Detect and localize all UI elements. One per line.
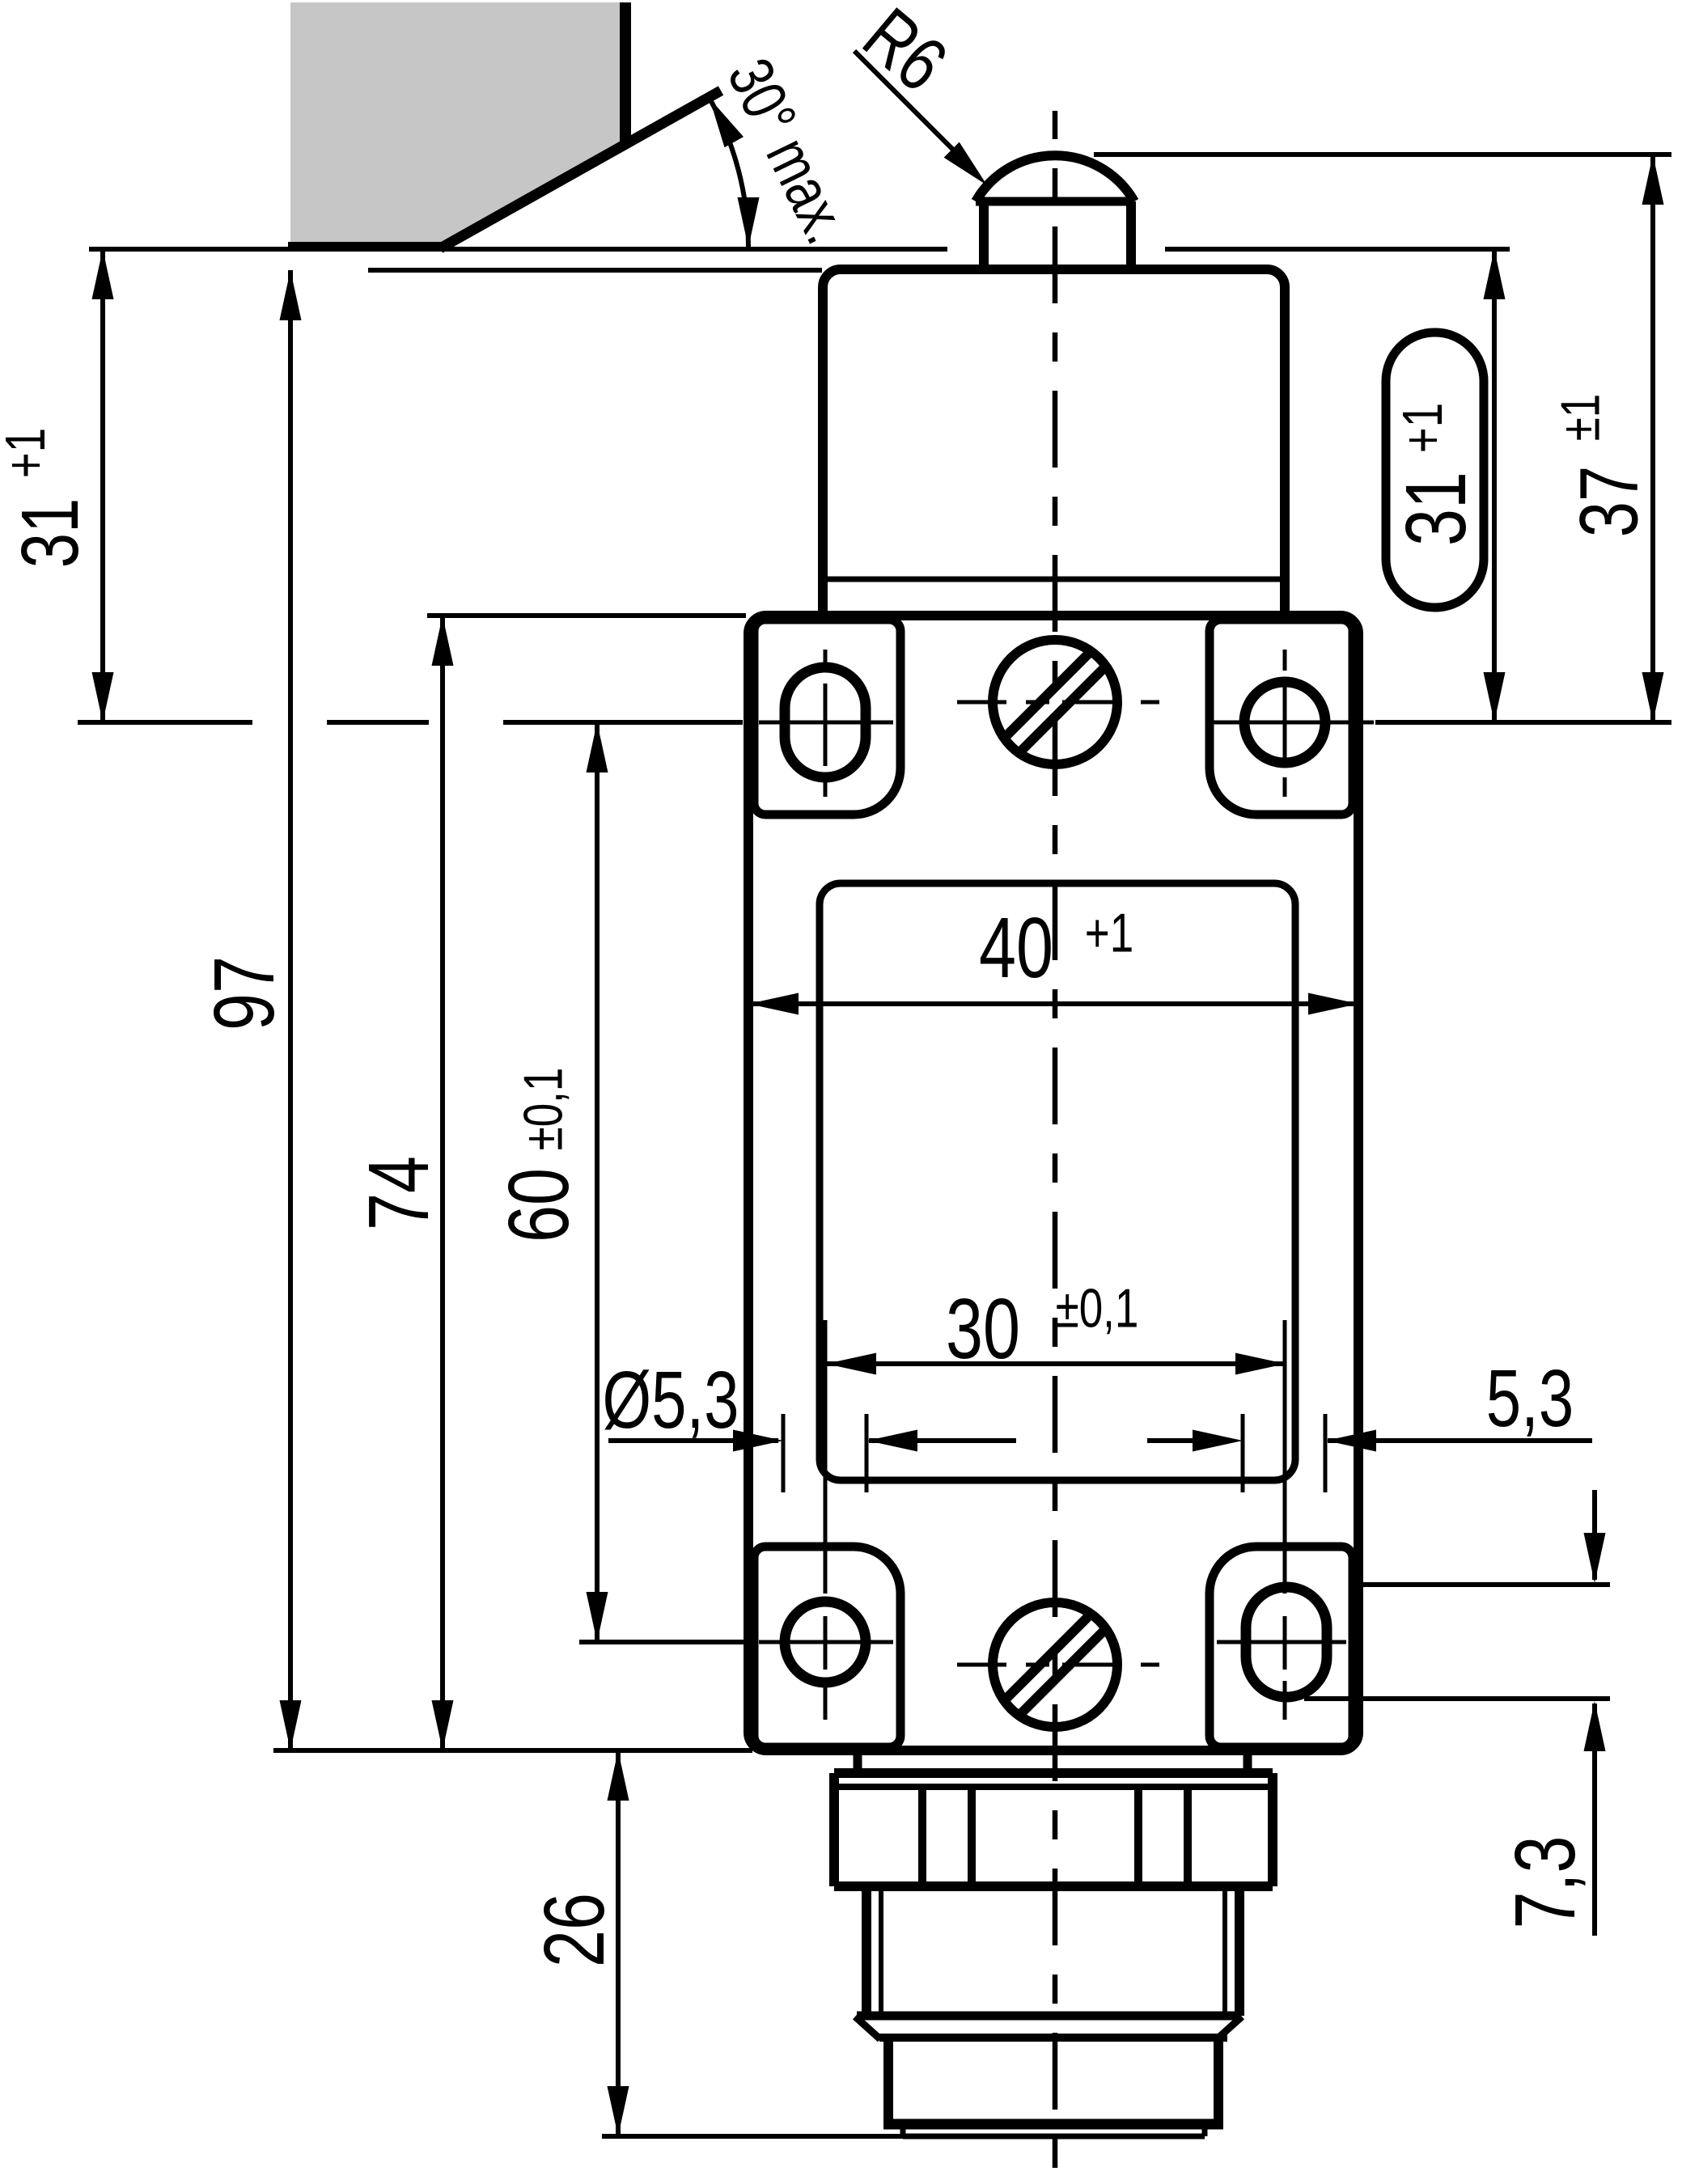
svg-text:40: 40 [979, 900, 1053, 996]
thread chamfer right [1217, 2017, 1242, 2039]
dim 31+1 left arrows [92, 249, 114, 299]
top cover screw [993, 640, 1117, 764]
body top extension line [427, 613, 746, 618]
dim dia5,3 ext lines [782, 1414, 786, 1492]
svg-text:±0,1: ±0,1 [1056, 1277, 1139, 1339]
dim 30 arrows [826, 1353, 876, 1375]
dim 74 line [440, 616, 445, 1750]
hex nut outline [834, 1768, 1273, 1778]
svg-text:37: 37 [1563, 466, 1655, 538]
hex nut chamfer line [834, 1784, 1273, 1790]
thread outer right [1235, 1886, 1244, 2016]
top-right pocket [1210, 620, 1353, 815]
plunger top reference line [1094, 152, 1671, 157]
dim 40 line [748, 1001, 1358, 1006]
svg-text:30° max.: 30° max. [714, 48, 863, 253]
neck left [854, 1750, 862, 1773]
dim 97 text [197, 956, 292, 1031]
plunger cylinder left side [979, 201, 989, 273]
svg-text:+1: +1 [0, 428, 57, 478]
top-right hole crosshair [1205, 721, 1374, 725]
body outline [748, 616, 1358, 1750]
hex nut facet lines [918, 1787, 926, 1886]
dim 5,3 line [1147, 1438, 1195, 1443]
mounting surface line right [1165, 247, 1510, 252]
dim 7,3 ext top [1359, 1582, 1610, 1587]
dim 40 text [979, 900, 1053, 996]
dim 40 arrows [748, 993, 799, 1015]
dim 31+1 right line [1492, 249, 1497, 722]
hole center extension line x1020 [824, 1320, 828, 1594]
dim 37 text [1563, 466, 1655, 538]
svg-text:31: 31 [6, 498, 96, 569]
plug bottom extension line [602, 2134, 903, 2139]
top-left hole crosshair [759, 721, 893, 725]
hole center extension line x1588 [1283, 1320, 1287, 1594]
angle 30deg text [714, 48, 863, 253]
mounting surface line left [89, 247, 947, 252]
hole center extension line left c [503, 720, 743, 725]
R6 leader line [854, 51, 955, 151]
angle 30deg arc arrows [710, 99, 744, 148]
dim 97 line [288, 270, 293, 1750]
hole center extension line right [1375, 720, 1671, 725]
hole center extension line left b [327, 720, 429, 725]
bottom-left pocket [754, 1547, 900, 1747]
top-left pocket [754, 620, 900, 815]
plug right side [1214, 2038, 1223, 2124]
svg-text:30: 30 [946, 1281, 1020, 1377]
thread chamfer left [855, 2017, 880, 2039]
dim 31+1 left line [100, 249, 105, 722]
dim 5,3 text [1486, 1354, 1574, 1445]
top-right hole (circle) [1244, 682, 1325, 763]
thread inner right [1222, 1886, 1227, 2014]
dim 31+1 right arrows [1484, 249, 1506, 299]
svg-text:7,3: 7,3 [1498, 1836, 1593, 1929]
dim dia5,3 text [602, 1356, 739, 1446]
dim 97 arrows [280, 270, 302, 320]
gray block bottom edge [288, 242, 447, 252]
dim 26 line [616, 1750, 621, 2136]
actuating lever 30deg line [440, 91, 721, 248]
dim 7,3 arrows [1584, 1533, 1606, 1583]
plug cap [900, 2124, 906, 2136]
bottom-right pocket [1210, 1547, 1353, 1747]
plunger cylinder right side [1126, 201, 1136, 273]
dim 26 text [527, 1893, 622, 1967]
svg-text:±0,1: ±0,1 [512, 1068, 574, 1151]
plunger dome (R6) [976, 155, 1134, 201]
dim 7,3 ext bottom [1304, 1696, 1610, 1701]
dim 5,3 ext lines [1241, 1414, 1245, 1492]
svg-text:Ø5,3: Ø5,3 [602, 1356, 739, 1446]
dim 5,3 arrows [1193, 1430, 1243, 1452]
plug top edge [879, 2034, 1227, 2042]
vertical centerline [1053, 111, 1058, 2184]
angle 30deg arc [710, 99, 748, 248]
plug bottom edge [883, 2119, 1223, 2130]
svg-text:74: 74 [351, 1156, 447, 1230]
dim 31+1 frame obround [1386, 332, 1484, 607]
dim dia5,3 line [608, 1438, 778, 1443]
top screw crosshair [957, 700, 1006, 705]
thread inner left [879, 1886, 883, 2014]
dim 31+1 frame text [1388, 472, 1484, 546]
dim 31+1 left text [6, 498, 96, 569]
R6 text [847, 0, 962, 108]
svg-text:60: 60 [491, 1168, 587, 1242]
plug left side [883, 2038, 893, 2124]
dim 60 arrows [587, 722, 608, 772]
dim 37 line [1650, 154, 1655, 722]
svg-text:5,3: 5,3 [1486, 1354, 1574, 1445]
svg-text:R6: R6 [847, 0, 962, 108]
gray block right edge [620, 2, 631, 146]
dim 30 text [946, 1281, 1020, 1377]
svg-text:±1: ±1 [1549, 394, 1611, 442]
bottom screw crosshair [957, 1663, 1006, 1667]
dim 74 arrows [432, 616, 454, 666]
cover panel [820, 883, 1295, 1480]
dim 26 arrows [608, 1750, 629, 1801]
svg-text:26: 26 [527, 1893, 622, 1967]
head box [823, 269, 1285, 620]
body bottom extension line [273, 1748, 752, 1753]
dim dia5,3 arrows [733, 1430, 783, 1452]
bottom-right slot hole (obround) [1246, 1587, 1327, 1697]
dim 7,3 text [1498, 1836, 1593, 1929]
neck right [1243, 1750, 1252, 1773]
machine part (gray actuating block) [290, 2, 625, 248]
head seam line [823, 577, 1285, 582]
bottom-right hole crosshair [1217, 1640, 1346, 1644]
dim 74 text [351, 1156, 447, 1230]
thread outer left [862, 1886, 871, 2016]
svg-text:+1: +1 [1392, 403, 1455, 453]
dim 7,3 line [1592, 1490, 1597, 1580]
bottom-left hole (circle) [785, 1602, 866, 1682]
dim 37 arrows [1642, 154, 1664, 205]
lower hole center extension line [579, 1640, 752, 1644]
thread bottom edge [857, 2012, 1240, 2021]
svg-text:97: 97 [197, 956, 292, 1031]
top-left slot hole (obround) [785, 667, 866, 777]
bottom-left hole crosshair [759, 1640, 893, 1644]
bottom cover screw [993, 1602, 1117, 1727]
svg-text:31: 31 [1388, 472, 1484, 546]
dim 60 text [491, 1168, 587, 1242]
svg-text:+1: +1 [1085, 902, 1133, 963]
R6 leader arrow [944, 142, 987, 185]
dim 60 line [595, 722, 600, 1642]
hole center extension line left a [78, 720, 252, 725]
head top extension line [368, 268, 822, 273]
dim 30 line [826, 1361, 1286, 1366]
